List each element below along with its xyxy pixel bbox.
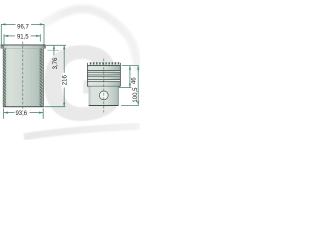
watermark top swoosh xyxy=(45,9,138,68)
dimension 3,76 xyxy=(46,45,66,55)
piston body xyxy=(87,62,120,105)
piston centerline xyxy=(103,59,105,113)
piston ring groove 2 xyxy=(87,74,120,76)
piston ring groove 1 xyxy=(87,70,120,72)
piston ring land 2 xyxy=(87,73,120,75)
piston ring-zone outline xyxy=(87,63,120,87)
piston lower land xyxy=(87,82,120,87)
liner wall hatching left xyxy=(1,45,4,48)
watermark bottom swoosh xyxy=(24,126,140,137)
liner flange step shading xyxy=(3,47,43,49)
piston pin bore xyxy=(99,91,108,100)
piston ring groove 3 xyxy=(87,79,120,81)
cylinder liner body xyxy=(1,45,45,107)
dimension 216 xyxy=(44,45,65,106)
dimension 46 xyxy=(119,66,139,88)
piston skirt xyxy=(89,86,119,105)
piston crown serration xyxy=(89,62,120,64)
svg-text:100,5: 100,5 xyxy=(133,87,139,103)
piston crown land xyxy=(87,66,120,70)
dimension 100,5 xyxy=(121,66,139,106)
liner wall hatching right xyxy=(43,45,46,48)
svg-text:96,7: 96,7 xyxy=(17,25,29,31)
svg-text:91,5: 91,5 xyxy=(17,35,29,41)
liner bottom edge xyxy=(3,106,43,108)
svg-text:93,6: 93,6 xyxy=(15,111,27,117)
liner top edge xyxy=(1,44,45,46)
svg-text:46: 46 xyxy=(132,77,138,84)
dimension 93,6 xyxy=(4,108,44,119)
liner centerline xyxy=(22,42,24,112)
svg-text:3,76: 3,76 xyxy=(53,57,59,69)
piston ring land 3 xyxy=(87,77,120,79)
svg-text:216: 216 xyxy=(62,75,68,86)
dimension 91,5 xyxy=(4,34,40,45)
dimension 96,7 xyxy=(1,23,44,44)
